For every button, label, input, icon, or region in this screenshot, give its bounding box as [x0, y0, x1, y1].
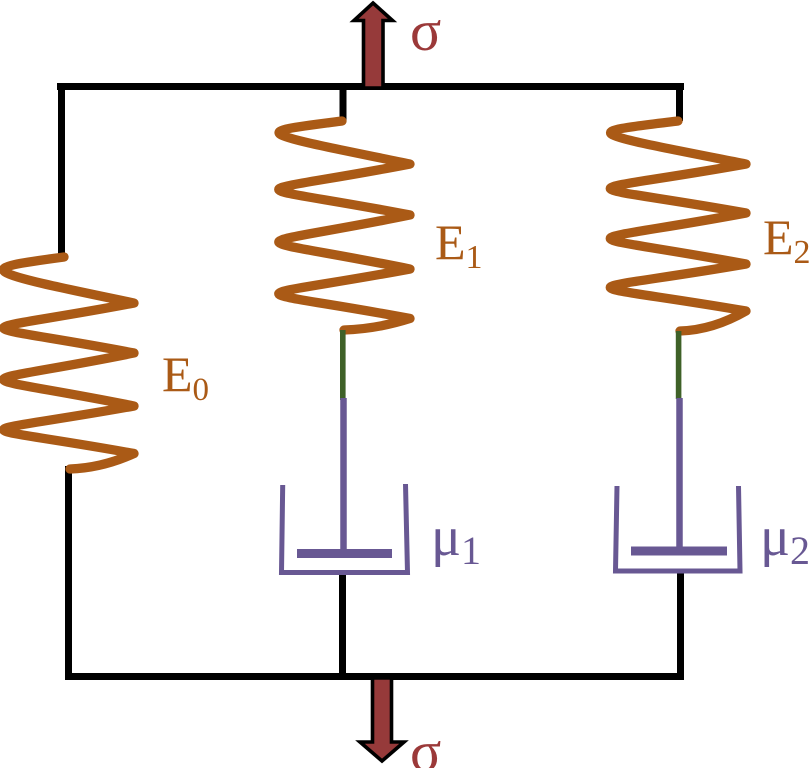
- dashpot piston plate mu1: [297, 549, 392, 558]
- dashpot piston rod mu1: [340, 398, 347, 553]
- svg-text:μ2: μ2: [760, 506, 810, 573]
- svg-text:μ1: μ1: [431, 506, 481, 573]
- svg-text:E0: E0: [162, 346, 209, 408]
- wire top bus: [57, 83, 684, 90]
- wire middle branch upper: [340, 86, 347, 121]
- svg-text:σ: σ: [410, 0, 441, 63]
- svg-text:E2: E2: [763, 209, 811, 271]
- wire right branch upper: [676, 86, 683, 121]
- wire green segment middle branch: [340, 330, 346, 400]
- dashpot cylinder mu1: [282, 484, 408, 573]
- wire middle branch lower: [339, 571, 346, 678]
- wire left branch upper: [58, 83, 65, 258]
- dashpot piston rod mu2: [676, 398, 683, 551]
- spring E2: [610, 121, 746, 331]
- wire bottom bus: [65, 673, 684, 680]
- svg-text:σ: σ: [410, 719, 441, 768]
- dashpot piston plate mu2: [631, 547, 727, 556]
- stress arrow bottom: [360, 678, 404, 761]
- stress arrow top: [354, 3, 393, 88]
- svg-text:E1: E1: [435, 214, 483, 276]
- wire left branch lower: [65, 466, 72, 679]
- spring E1: [279, 121, 410, 330]
- wire right branch lower: [677, 569, 684, 678]
- spring E0: [3, 257, 134, 469]
- dashpot cylinder mu2: [616, 486, 741, 571]
- wire green segment right branch: [676, 331, 682, 399]
